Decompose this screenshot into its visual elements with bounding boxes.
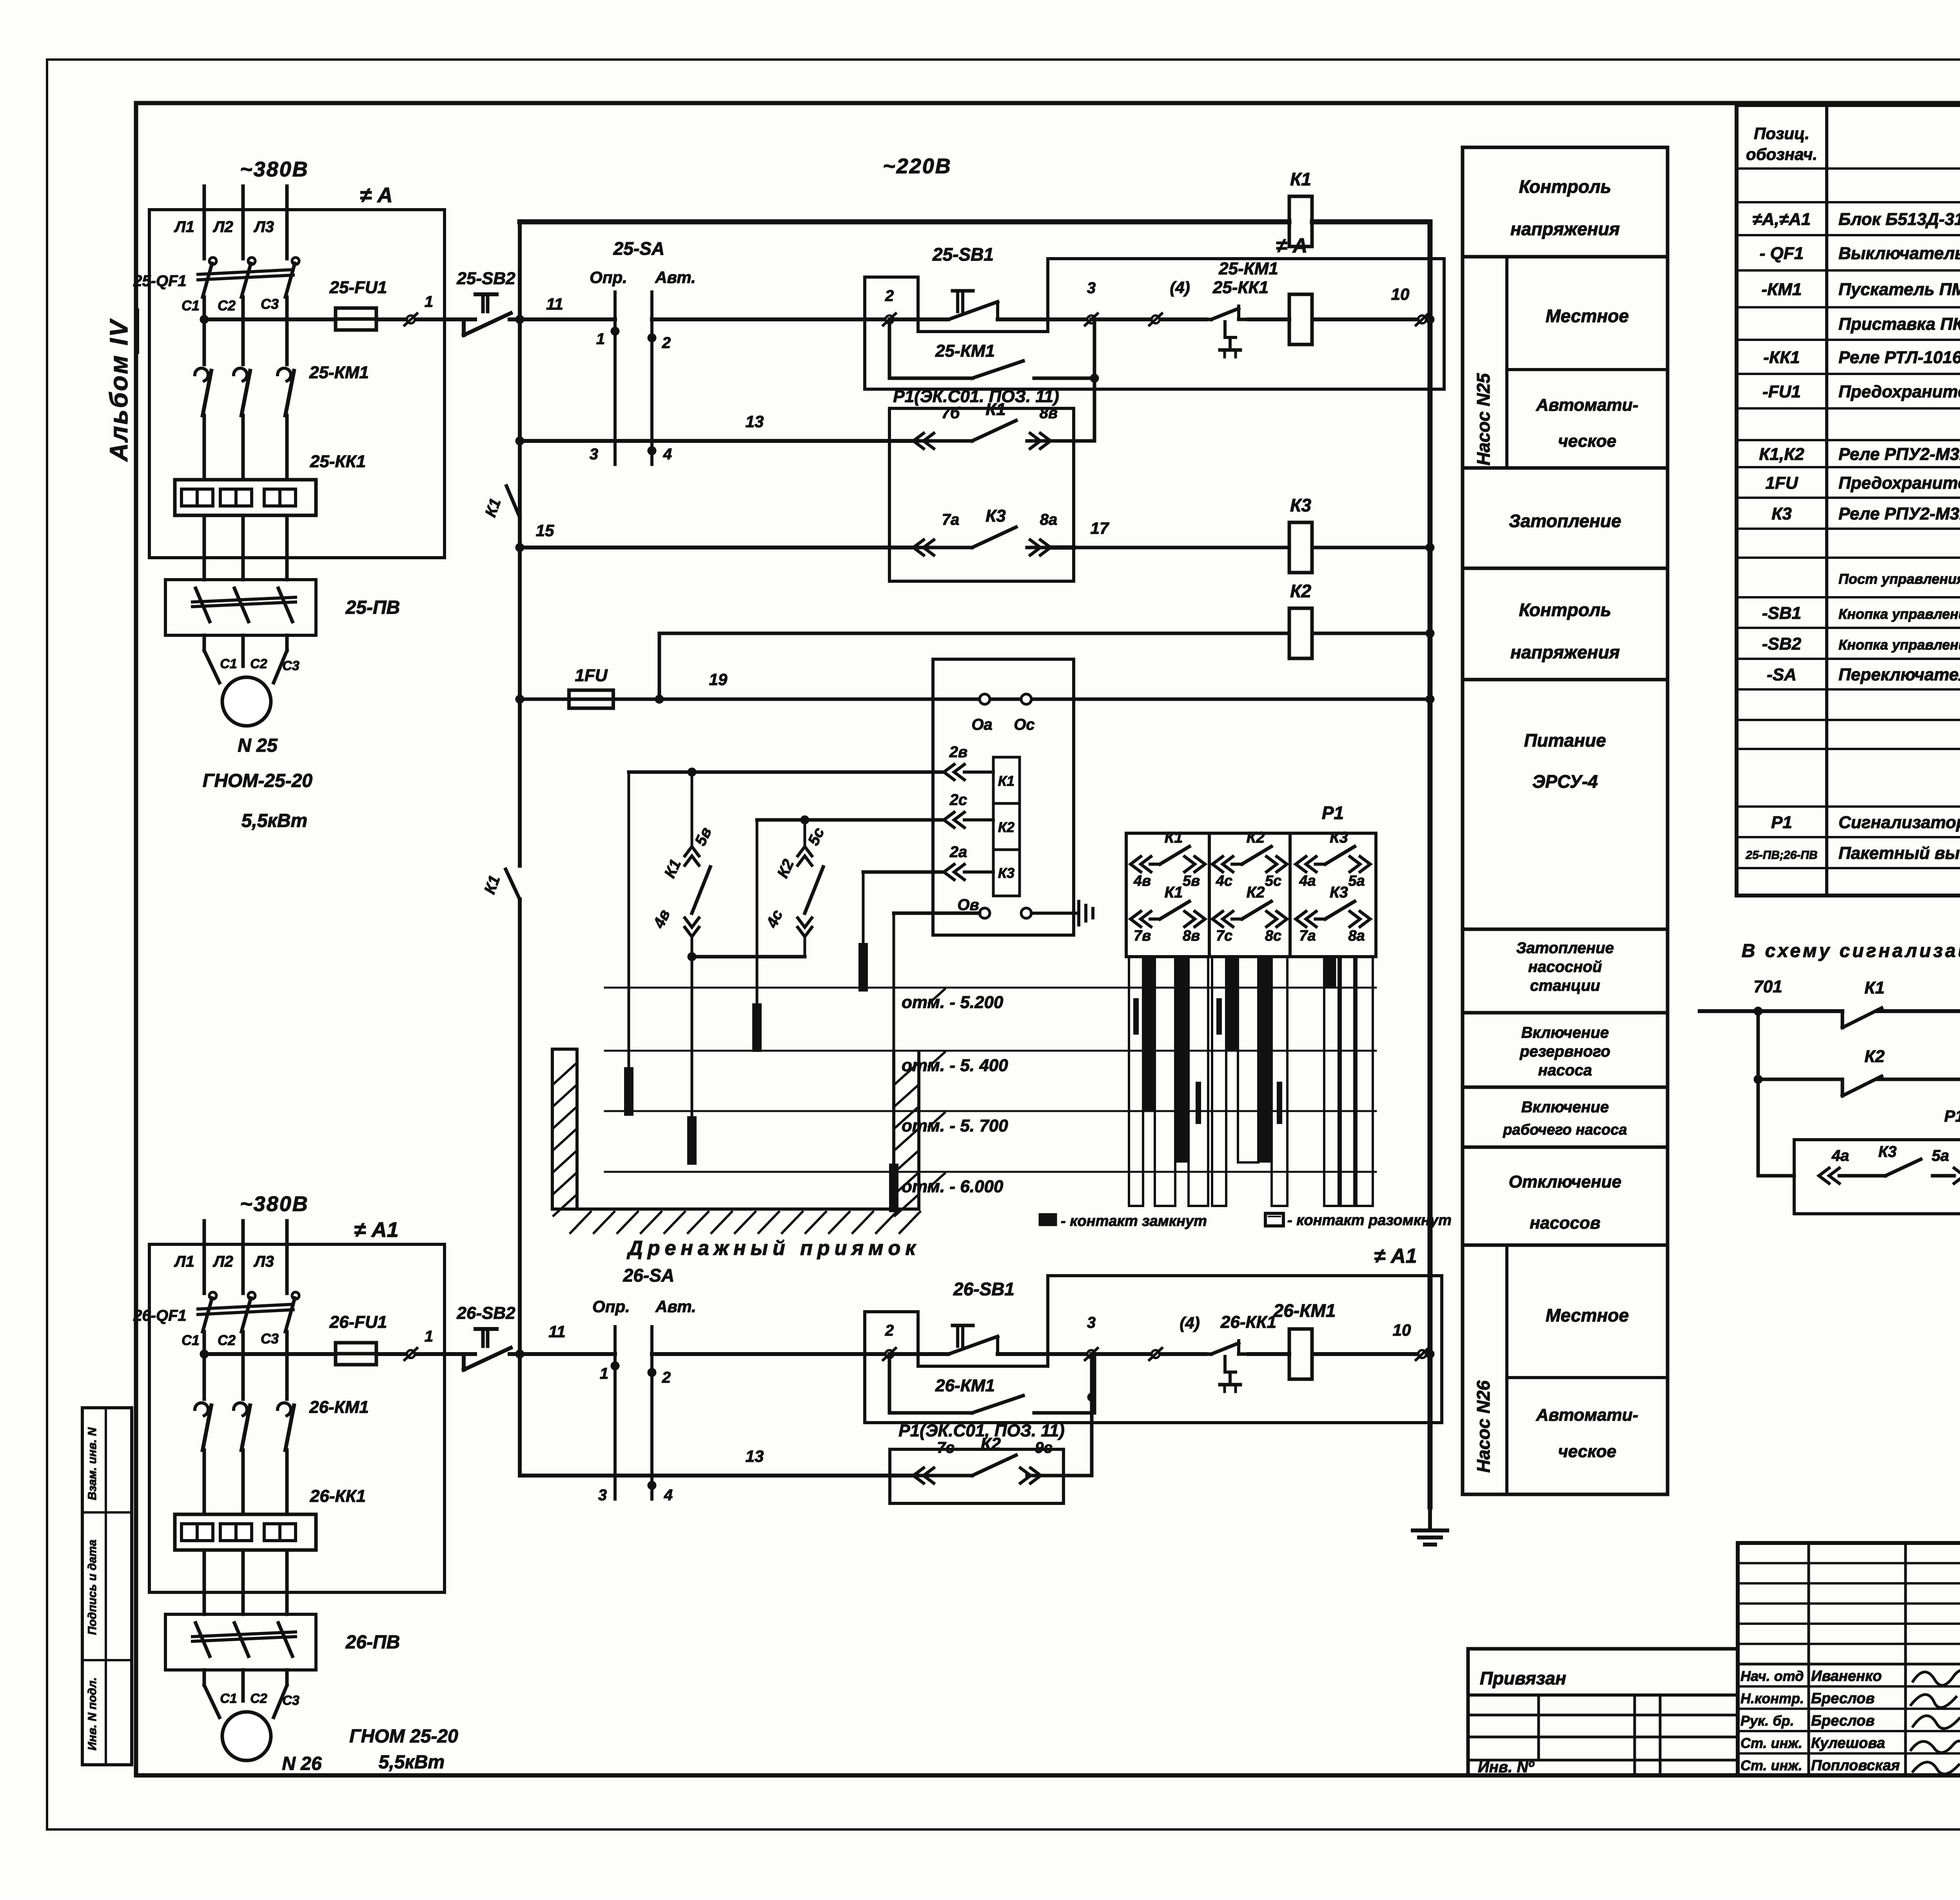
svg-text:Сигнализатор уровня ЭРСУ-4: Сигнализатор уровня ЭРСУ-4 (1838, 813, 1960, 832)
svg-text:5а: 5а (1348, 873, 1365, 889)
svg-text:7б: 7б (941, 404, 960, 422)
svg-text:С1: С1 (220, 1691, 237, 1706)
svg-text:К1: К1 (1290, 169, 1311, 189)
svg-text:Контроль: Контроль (1519, 600, 1611, 620)
svg-text:-SB2: -SB2 (1762, 635, 1802, 654)
svg-text:Нач. отд: Нач. отд (1740, 1668, 1804, 1684)
svg-text:К2: К2 (1290, 581, 1311, 601)
svg-text:-КК1: -КК1 (1763, 348, 1800, 367)
svg-text:≠А,≠А1: ≠А,≠А1 (1753, 210, 1811, 229)
svg-text:1FU: 1FU (1765, 473, 1798, 493)
svg-text:Предохранитель ППТ-10УЗ: Предохранитель ППТ-10УЗ (1838, 382, 1960, 401)
svg-text:7а: 7а (942, 511, 960, 528)
svg-text:26-КМ1: 26-КМ1 (935, 1376, 995, 1395)
svg-text:Л3: Л3 (253, 1253, 274, 1270)
svg-text:С1: С1 (181, 1332, 200, 1348)
svg-text:отм. - 6.000: отм. - 6.000 (902, 1177, 1004, 1196)
svg-text:19: 19 (709, 670, 728, 689)
svg-text:25-КМ1: 25-КМ1 (935, 341, 995, 361)
svg-text:Реле РТЛ-101604: Реле РТЛ-101604 (1838, 348, 1960, 367)
svg-text:- QF1: - QF1 (1760, 244, 1804, 263)
svg-text:насосной: насосной (1528, 958, 1602, 975)
svg-text:2: 2 (885, 287, 894, 305)
svg-text:15: 15 (536, 521, 554, 540)
svg-text:К2: К2 (774, 857, 797, 881)
svg-text:Ст. инж.: Ст. инж. (1740, 1757, 1802, 1773)
svg-text:4а: 4а (1831, 1147, 1849, 1164)
svg-text:26-QF1: 26-QF1 (133, 1307, 187, 1324)
svg-text:ческое: ческое (1558, 431, 1617, 451)
svg-text:25-SB1: 25-SB1 (932, 244, 994, 265)
svg-text:К3: К3 (985, 506, 1006, 526)
svg-text:-КМ1: -КМ1 (1762, 280, 1802, 299)
svg-text:≠ А1: ≠ А1 (1374, 1245, 1417, 1267)
svg-text:Инв. N подл.: Инв. N подл. (86, 1677, 99, 1751)
svg-text:8в: 8в (1040, 404, 1058, 422)
svg-text:1: 1 (425, 293, 433, 310)
svg-text:26-КК1: 26-КК1 (310, 1487, 366, 1506)
svg-text:25-SB2: 25-SB2 (456, 269, 515, 288)
svg-text:Л3: Л3 (253, 218, 274, 236)
svg-text:К2: К2 (1864, 1047, 1885, 1066)
svg-text:Включение: Включение (1521, 1099, 1609, 1116)
svg-text:- контакт разомкнут: - контакт разомкнут (1287, 1212, 1452, 1229)
svg-text:Альбом IV: Альбом IV (105, 318, 133, 462)
svg-text:напряжения: напряжения (1510, 219, 1620, 239)
svg-text:N 26: N 26 (282, 1753, 322, 1774)
svg-text:ческое: ческое (1558, 1442, 1617, 1461)
svg-text:Бреслов: Бреслов (1811, 1690, 1875, 1707)
svg-text:3: 3 (590, 446, 598, 463)
svg-text:отм. - 5. 400: отм. - 5. 400 (902, 1056, 1008, 1075)
svg-text:К1: К1 (985, 400, 1006, 419)
svg-text:обознач.: обознач. (1746, 145, 1817, 163)
svg-text:4: 4 (663, 446, 672, 463)
svg-text:Пускатель ПМЛ-210004: Пускатель ПМЛ-210004 (1838, 280, 1960, 299)
svg-text:С2: С2 (250, 656, 267, 671)
svg-text:26-SB2: 26-SB2 (456, 1304, 515, 1323)
svg-text:5с: 5с (1265, 873, 1281, 889)
svg-text:3: 3 (598, 1487, 607, 1504)
svg-text:N 25: N 25 (238, 735, 278, 756)
svg-text:Л2: Л2 (212, 1253, 233, 1270)
svg-text:2с: 2с (949, 791, 967, 809)
svg-text:Насос N26: Насос N26 (1473, 1380, 1494, 1473)
svg-text:К3: К3 (1330, 829, 1348, 846)
svg-text:~380В: ~380В (240, 158, 309, 181)
svg-text:резервного: резервного (1519, 1043, 1610, 1060)
svg-text:Затопление: Затопление (1509, 511, 1621, 531)
svg-text:7с: 7с (937, 1439, 955, 1456)
svg-text:4с: 4с (1216, 873, 1232, 889)
svg-text:К1: К1 (998, 773, 1014, 789)
svg-text:26-SA: 26-SA (623, 1265, 674, 1285)
svg-text:25-ПВ;26-ПВ: 25-ПВ;26-ПВ (1745, 849, 1817, 862)
svg-text:станции: станции (1530, 977, 1600, 994)
svg-text:В схему сигнализации АЭМ.л48: В схему сигнализации АЭМ.л48 (1742, 941, 1960, 961)
svg-text:10: 10 (1393, 1321, 1411, 1339)
svg-text:рабочего насоса: рабочего насоса (1503, 1122, 1627, 1138)
svg-text:К2: К2 (998, 819, 1014, 835)
svg-text:5в: 5в (1183, 873, 1200, 889)
svg-text:С3: С3 (282, 658, 299, 673)
svg-text:26-ПВ: 26-ПВ (345, 1632, 400, 1653)
svg-text:2: 2 (662, 334, 671, 352)
svg-text:Блок Б513Д-3174 УхЛ4: Блок Б513Д-3174 УхЛ4 (1838, 210, 1960, 229)
svg-text:~380В: ~380В (240, 1192, 309, 1216)
svg-text:25-КК1: 25-КК1 (1212, 278, 1269, 297)
svg-text:10: 10 (1391, 285, 1410, 303)
svg-text:25-SA: 25-SA (613, 238, 664, 259)
svg-text:≠ А: ≠ А (360, 183, 393, 207)
svg-text:К3: К3 (1330, 884, 1348, 901)
svg-text:Р1(ЭК.С01. ПОЗ. 11): Р1(ЭК.С01. ПОЗ. 11) (893, 387, 1059, 406)
svg-text:2: 2 (885, 1322, 894, 1339)
svg-text:(4): (4) (1170, 278, 1190, 297)
svg-text:Л1: Л1 (174, 1253, 194, 1270)
svg-text:25-QF1: 25-QF1 (133, 272, 187, 290)
svg-text:26-КК1: 26-КК1 (1220, 1313, 1276, 1332)
svg-text:9с: 9с (1035, 1439, 1053, 1456)
svg-text:5,5кВт: 5,5кВт (241, 810, 307, 831)
svg-text:8а: 8а (1348, 928, 1365, 944)
svg-text:Дренажный приямок: Дренажный приямок (626, 1237, 920, 1260)
svg-text:Привязан: Привязан (1480, 1668, 1566, 1688)
svg-text:Автомати-: Автомати- (1536, 1405, 1639, 1425)
svg-text:13: 13 (746, 1447, 764, 1465)
svg-text:Бреслов: Бреслов (1811, 1713, 1875, 1729)
svg-text:13: 13 (746, 412, 764, 431)
svg-text:Попловская: Попловская (1811, 1757, 1900, 1774)
svg-text:4: 4 (664, 1487, 673, 1504)
svg-text:насоса: насоса (1538, 1062, 1592, 1079)
svg-text:Предохранитель ПН5Д: Предохранитель ПН5Д (1838, 473, 1960, 493)
svg-text:Пост управления у насоса ПКУ-1: Пост управления у насоса ПКУ-15-21.131-5… (1838, 571, 1960, 587)
svg-text:Отключение: Отключение (1509, 1172, 1621, 1191)
svg-text:701: 701 (1753, 977, 1782, 996)
svg-text:17: 17 (1091, 519, 1109, 537)
svg-text:Позиц.: Позиц. (1754, 124, 1809, 143)
svg-text:4а: 4а (1299, 873, 1316, 889)
svg-text:К1: К1 (1864, 978, 1885, 997)
svg-text:1FU: 1FU (575, 666, 608, 685)
svg-text:К3: К3 (998, 865, 1014, 881)
svg-text:5с: 5с (805, 825, 828, 848)
svg-text:Л2: Л2 (212, 218, 233, 236)
svg-text:2: 2 (662, 1369, 671, 1386)
svg-text:3: 3 (1087, 1314, 1096, 1331)
svg-text:Насос N25: Насос N25 (1473, 373, 1494, 466)
svg-text:8с: 8с (1265, 928, 1281, 944)
svg-text:25-КМ1: 25-КМ1 (309, 363, 369, 382)
svg-text:К1: К1 (482, 496, 504, 519)
svg-text:Р1: Р1 (1322, 803, 1344, 823)
svg-text:Авт.: Авт. (655, 1297, 696, 1316)
svg-text:(4): (4) (1180, 1314, 1200, 1332)
svg-text:Р1: Р1 (1771, 813, 1792, 832)
svg-text:Кулешова: Кулешова (1811, 1735, 1885, 1751)
svg-text:Кнопка управления КУ; 2р; крас: Кнопка управления КУ; 2р; красный толкат… (1838, 637, 1960, 653)
svg-text:ГНОМ-25-20: ГНОМ-25-20 (203, 771, 313, 791)
svg-text:напряжения: напряжения (1510, 642, 1620, 662)
svg-text:Взам. инв. N: Взам. инв. N (86, 1427, 99, 1500)
svg-text:К1: К1 (481, 873, 503, 896)
svg-text:К2: К2 (1247, 829, 1265, 846)
svg-text:К2: К2 (981, 1434, 1001, 1454)
svg-text:насосов: насосов (1530, 1213, 1600, 1233)
svg-text:Авт.: Авт. (655, 268, 696, 286)
svg-text:Местное: Местное (1546, 306, 1629, 326)
svg-text:С2: С2 (218, 297, 236, 314)
svg-text:Л1: Л1 (174, 218, 194, 236)
svg-text:С2: С2 (250, 1691, 267, 1706)
svg-text:Выключатель АЕ2046М-10РУЗ: Выключатель АЕ2046М-10РУЗ (1838, 244, 1960, 263)
svg-text:5в: 5в (691, 825, 715, 848)
svg-text:К3: К3 (1771, 504, 1792, 524)
svg-text:26-SB1: 26-SB1 (953, 1279, 1014, 1299)
svg-text:2в: 2в (949, 743, 967, 761)
svg-text:Р1(ЭК.С01.ПОЗ.11): Р1(ЭК.С01.ПОЗ.11) (1944, 1107, 1960, 1125)
svg-text:Рук. бр.: Рук. бр. (1740, 1713, 1794, 1729)
svg-text:К3: К3 (1290, 495, 1311, 515)
svg-text:- контакт замкнут: - контакт замкнут (1061, 1213, 1207, 1229)
svg-text:1: 1 (425, 1328, 433, 1345)
svg-text:26-КМ1: 26-КМ1 (309, 1398, 369, 1417)
svg-text:11: 11 (548, 1322, 566, 1341)
svg-text:Ст. инж.: Ст. инж. (1740, 1735, 1802, 1751)
svg-text:К3: К3 (1878, 1143, 1897, 1160)
svg-text:26-КМ1: 26-КМ1 (1273, 1300, 1336, 1321)
svg-text:К1: К1 (1165, 884, 1183, 901)
svg-text:Оа: Оа (971, 716, 992, 733)
svg-text:Реле РПУ2-М3Б800 УЗБ: Реле РПУ2-М3Б800 УЗБ (1838, 504, 1960, 524)
svg-text:7а: 7а (1299, 928, 1316, 944)
svg-text:ГНОМ 25-20: ГНОМ 25-20 (349, 1726, 458, 1747)
svg-text:≠ А: ≠ А (1276, 234, 1308, 257)
svg-text:Местное: Местное (1546, 1305, 1629, 1325)
svg-text:С2: С2 (218, 1332, 236, 1348)
svg-text:Затопление: Затопление (1516, 939, 1614, 957)
svg-text:25-КМ1: 25-КМ1 (1218, 259, 1278, 278)
svg-text:1: 1 (596, 330, 605, 348)
svg-text:2а: 2а (949, 843, 967, 861)
svg-text:-SB1: -SB1 (1762, 604, 1801, 623)
svg-text:-SA: -SA (1767, 665, 1797, 684)
svg-text:Приставка ПКЛ-2004: Приставка ПКЛ-2004 (1838, 315, 1960, 334)
svg-text:С3: С3 (261, 1331, 279, 1347)
svg-text:Переключатель ПФ2: Переключатель ПФ2 (1838, 665, 1960, 684)
svg-text:~220В: ~220В (883, 154, 952, 178)
svg-text:7с: 7с (1216, 928, 1232, 944)
svg-text:Питание: Питание (1524, 730, 1606, 751)
svg-text:26-FU1: 26-FU1 (329, 1313, 387, 1332)
svg-text:5а: 5а (1932, 1147, 1949, 1164)
svg-text:8а: 8а (1040, 511, 1058, 528)
svg-text:8в: 8в (1183, 928, 1200, 944)
svg-text:Опр.: Опр. (590, 268, 627, 286)
svg-text:Инв. Nº: Инв. Nº (1478, 1759, 1535, 1776)
svg-text:25-КК1: 25-КК1 (310, 452, 366, 471)
svg-text:отм. - 5. 700: отм. - 5. 700 (902, 1116, 1008, 1135)
svg-text:Подпись и дата: Подпись и дата (86, 1539, 99, 1635)
svg-text:Опр.: Опр. (592, 1297, 630, 1316)
svg-text:ЭРСУ-4: ЭРСУ-4 (1532, 771, 1598, 792)
svg-text:отм. - 5.200: отм. - 5.200 (902, 993, 1004, 1012)
svg-text:Ос: Ос (1014, 716, 1034, 733)
svg-text:С3: С3 (282, 1693, 299, 1708)
svg-text:Автомати-: Автомати- (1536, 395, 1639, 415)
svg-text:К1: К1 (1165, 829, 1183, 846)
svg-text:11: 11 (546, 295, 563, 313)
svg-text:К2: К2 (1247, 884, 1265, 901)
svg-text:Пакетный выключатель ПВ-3-25/У: Пакетный выключатель ПВ-3-25/У267 (1838, 844, 1960, 863)
svg-text:С1: С1 (220, 656, 237, 671)
svg-text:Кнопка управления КУ: 1з1р, че: Кнопка управления КУ: 1з1р, черный толка… (1838, 606, 1960, 622)
svg-text:С3: С3 (261, 296, 279, 312)
svg-text:Реле РПУ2-М3Б220УЗБ: Реле РПУ2-М3Б220УЗБ (1838, 445, 1960, 464)
svg-text:К1: К1 (661, 857, 684, 881)
svg-text:5,5кВт: 5,5кВт (379, 1752, 445, 1773)
svg-text:3: 3 (1087, 279, 1096, 297)
svg-text:Включение: Включение (1521, 1024, 1609, 1041)
svg-text:≠ А1: ≠ А1 (354, 1218, 399, 1242)
svg-text:4в: 4в (650, 907, 673, 931)
svg-text:Н.контр.: Н.контр. (1740, 1690, 1804, 1706)
svg-text:4с: 4с (763, 907, 786, 931)
svg-text:25-FU1: 25-FU1 (329, 278, 387, 297)
svg-text:-FU1: -FU1 (1762, 382, 1801, 401)
svg-text:К1,К2: К1,К2 (1759, 445, 1804, 464)
svg-text:Контроль: Контроль (1519, 176, 1611, 197)
svg-text:25-ПВ: 25-ПВ (345, 597, 400, 618)
svg-text:4в: 4в (1133, 873, 1151, 889)
svg-text:7в: 7в (1134, 928, 1151, 944)
svg-text:1: 1 (600, 1365, 608, 1382)
svg-text:С1: С1 (181, 297, 200, 314)
svg-text:Ов: Ов (957, 896, 979, 914)
svg-text:Иваненко: Иваненко (1811, 1668, 1882, 1684)
